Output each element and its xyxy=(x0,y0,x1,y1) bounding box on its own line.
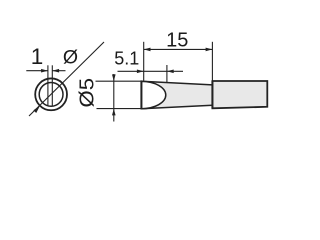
dim 1 right arrowhead xyxy=(52,69,59,73)
O5 bottom arrowhead xyxy=(112,109,116,116)
dim 15 left arrowhead xyxy=(144,48,151,52)
extension line at chisel edge xyxy=(143,42,145,81)
svg-text:Ø5: Ø5 xyxy=(76,78,98,108)
svg-text:5.1: 5.1 xyxy=(114,49,139,69)
O5 extension line top xyxy=(96,80,142,82)
svg-text:15: 15 xyxy=(166,29,188,51)
extension line at collar xyxy=(211,42,213,81)
dim 1 left arrowhead xyxy=(41,69,48,73)
O5 extension line bottom xyxy=(97,108,142,110)
dim 5.1 right arrowhead xyxy=(167,70,174,74)
tip bottom taper outline xyxy=(141,105,212,109)
tip body tapered fill xyxy=(141,81,212,109)
tip top taper outline xyxy=(141,81,212,85)
svg-text:Ø: Ø xyxy=(63,46,78,68)
dim 1 left tail line xyxy=(26,70,48,72)
chisel end edge line xyxy=(140,80,142,109)
chisel slot edge line left xyxy=(47,65,49,106)
dim 15 line xyxy=(144,48,213,50)
svg-text:1: 1 xyxy=(31,44,44,69)
collar step edge line xyxy=(211,81,213,108)
O5 dimension vertical line xyxy=(113,74,115,122)
chisel slot edge line right xyxy=(51,65,53,106)
dim 5.1 line xyxy=(118,70,184,72)
front view inner circle xyxy=(39,82,63,106)
chisel face ellipse xyxy=(141,81,165,108)
extension line at face end xyxy=(166,65,168,83)
dim 1 right tail line xyxy=(52,70,65,72)
diameter leader arrowhead xyxy=(33,106,40,113)
O5 top arrowhead xyxy=(112,74,116,81)
front view outer circle xyxy=(35,78,67,110)
shaft body xyxy=(212,81,267,108)
dim 5.1 left arrowhead xyxy=(137,70,144,74)
dim 15 right arrowhead xyxy=(206,48,213,52)
diameter leader line xyxy=(29,42,104,116)
